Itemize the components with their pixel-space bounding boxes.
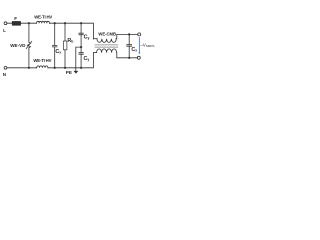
svg-text:Cx: Cx [55,49,61,55]
svg-text:Cy: Cy [84,56,90,62]
svg-text:L: L [3,28,6,33]
svg-text:PE: PE [66,70,72,75]
svg-text:–VSMPS: –VSMPS [140,43,154,49]
svg-text:WE-CMB: WE-CMB [98,32,116,37]
svg-text:F: F [14,16,17,21]
svg-text:WE-VD: WE-VD [10,43,26,48]
svg-text:WE-TI HV: WE-TI HV [34,15,52,20]
svg-text:Cx: Cx [131,47,137,53]
svg-text:Cy: Cy [84,34,90,40]
svg-text:WE-TI HV: WE-TI HV [33,58,51,63]
svg-text:Rb: Rb [67,38,73,44]
